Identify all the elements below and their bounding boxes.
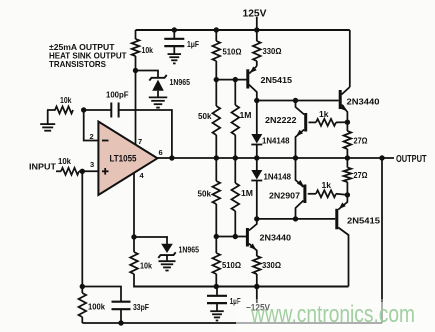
node pin2 junction: [81, 107, 86, 112]
resistor 330 (bottom): [253, 255, 261, 287]
node 1M/output junction: [233, 155, 238, 160]
wire feedback node drop: [81, 171, 83, 286]
capacitor 1uF (top): [164, 27, 184, 54]
pin 4 label: [140, 171, 145, 180]
pin 7 label: [138, 137, 142, 146]
label 1uF (top): [187, 39, 199, 49]
wire 100pF left: [84, 109, 112, 111]
label -125V: [246, 303, 270, 313]
label 510 (bottom): [222, 260, 241, 270]
pin 3 label: [90, 160, 94, 169]
capacitor 100pF: [111, 103, 118, 118]
svg-text:www.cntronics.com: www.cntronics.com: [250, 301, 415, 328]
label 1N4148 (bottom): [264, 172, 292, 182]
wire feedback bottom (faded): [236, 322, 382, 324]
resistor 330 (top): [253, 30, 261, 66]
wire zener1 branch: [136, 70, 159, 72]
diode zener 1N965 (bottom): [158, 244, 175, 261]
ground (top 1uF): [168, 54, 182, 63]
node 510 top rail: [214, 27, 219, 32]
transistor Q5 2N2907 (bottom limiter): [296, 158, 305, 219]
label 2N5415 (bottom): [347, 216, 380, 226]
label 100pF: [106, 89, 129, 99]
ground (top zener): [149, 97, 168, 107]
ground (10k feedback): [40, 110, 55, 131]
resistor 510 (top): [213, 30, 221, 80]
label OUTPUT: [396, 154, 427, 165]
node bottom base junction B: [214, 234, 219, 239]
svg-text:50k: 50k: [198, 111, 212, 121]
resistor 10k (feedback to ground): [55, 107, 73, 114]
node Q3 collector junction: [293, 98, 298, 103]
diode 1N4148 (top): [251, 134, 262, 158]
svg-text:50k: 50k: [198, 189, 212, 199]
node 510 bottom rail: [214, 284, 219, 289]
svg-text:33pF: 33pF: [133, 302, 149, 312]
svg-text:10k: 10k: [140, 261, 152, 271]
ground (bottom zener): [159, 261, 176, 270]
wire pin2 drop: [84, 110, 99, 141]
resistor 1k (top): [309, 119, 348, 126]
label 50k (top): [198, 111, 212, 121]
wire 33pF top: [82, 287, 121, 302]
label 2N2222: [265, 115, 297, 125]
wire -125V bottom rail: [134, 286, 349, 288]
svg-text:330Ω: 330Ω: [263, 46, 282, 56]
node D2 bottom junction: [254, 216, 259, 221]
resistor 27 (bottom): [344, 158, 352, 195]
node 1M top junction: [233, 77, 238, 82]
watermark fog: [236, 299, 435, 332]
svg-text:LT1055: LT1055: [110, 154, 138, 165]
wire 33pF bottom: [120, 309, 122, 323]
label 125V: [243, 9, 267, 20]
svg-text:INPUT: INPUT: [29, 162, 57, 172]
wire top bias line: [257, 100, 339, 102]
op-amp plus sign: [102, 168, 109, 175]
wire bottom base line: [216, 236, 246, 238]
label 510 (top): [223, 47, 242, 57]
wire +125V top rail: [136, 29, 350, 31]
svg-text:1N965: 1N965: [170, 77, 191, 87]
label 10k (feedback): [60, 95, 72, 105]
wire D1 top lead: [256, 101, 258, 135]
node pin3 junction: [80, 169, 85, 174]
transistor Q6 2N5415 (bottom output): [337, 195, 349, 287]
wire pin7 column: [135, 30, 137, 145]
label 1k (bottom): [322, 180, 332, 190]
svg-text:1N4148: 1N4148: [262, 136, 290, 146]
diode zener 1N965 (top): [149, 71, 166, 98]
label 2N3440 (bottom): [260, 233, 292, 243]
wire pin4 10k to rail: [133, 274, 135, 288]
node +125V supply stub: [254, 17, 259, 33]
wire D2 top lead: [256, 158, 258, 170]
transistor Q2 2N3440 (top output): [340, 87, 350, 122]
svg-text:27Ω: 27Ω: [354, 136, 368, 146]
resistor 27 (top): [344, 122, 352, 158]
wire input stub: [56, 170, 61, 172]
svg-text:2N5415: 2N5415: [261, 75, 293, 85]
wire feedback riser: [381, 158, 383, 302]
wire feedback bottom (dark): [82, 322, 236, 324]
wire pin4 column: [133, 173, 135, 253]
svg-text:510Ω: 510Ω: [222, 260, 241, 270]
ground (bottom 1uF): [210, 311, 224, 320]
resistor 510 (bottom): [213, 237, 221, 287]
resistor 50k (top): [213, 80, 221, 158]
transistor Q3 2N2222 (top limiter): [296, 101, 306, 159]
wire zener2 branch: [134, 236, 168, 244]
label heat-sink note: [49, 42, 127, 69]
label 1N965 (top): [170, 77, 191, 87]
svg-text:1N4148: 1N4148: [264, 172, 292, 182]
label 1uF (bottom): [230, 296, 241, 306]
transistor Q1 2N5415 (top driver): [248, 66, 257, 101]
wire input to pin3: [79, 170, 98, 172]
svg-text:2N3440: 2N3440: [260, 233, 292, 243]
label 1M (top): [240, 110, 252, 120]
resistor 100k: [79, 287, 87, 324]
svg-text:TRANSISTORS: TRANSISTORS: [49, 59, 106, 69]
svg-text:6: 6: [159, 148, 163, 157]
node Q3 emitter junction: [293, 155, 298, 160]
label INPUT: [29, 162, 57, 172]
svg-text:510Ω: 510Ω: [223, 47, 242, 57]
svg-text:100pF: 100pF: [106, 89, 129, 99]
label 2N2907: [269, 191, 300, 201]
node 33pF/feedback junction: [118, 320, 123, 325]
label 50k (bottom): [198, 189, 212, 199]
diode 1N4148 (bottom): [251, 170, 262, 219]
label 27 (top): [354, 136, 368, 146]
svg-text:10k: 10k: [58, 156, 71, 166]
op-amp minus sign: [102, 140, 109, 142]
wire rail to Q2 collector: [349, 30, 351, 87]
svg-text:1k: 1k: [322, 180, 332, 190]
node 27R bottom junction: [345, 192, 350, 197]
label 330 (top): [263, 46, 282, 56]
capacitor 33pF: [112, 302, 131, 310]
node 50k/output junction: [214, 155, 219, 160]
node Q1 collector junction: [254, 98, 259, 103]
label 1k (top): [319, 109, 329, 119]
node diode mid junction: [254, 155, 259, 160]
svg-text:2N5415: 2N5415: [347, 216, 380, 226]
node 100pF/output junction: [169, 155, 174, 160]
svg-text:3: 3: [90, 160, 94, 169]
svg-text:OUTPUT: OUTPUT: [396, 154, 427, 165]
label 1M (bottom): [241, 188, 253, 198]
node 100k/33pF junction: [80, 284, 85, 289]
label 2N3440 (top): [347, 97, 380, 107]
wire output line: [157, 157, 382, 159]
svg-text:2N3440: 2N3440: [347, 97, 380, 107]
node 1M bottom junction: [233, 234, 238, 239]
label 2N5415 (top): [261, 75, 293, 85]
node Q2 emitter junction: [345, 120, 350, 125]
label 330 (bottom): [262, 260, 281, 270]
resistor 10k (input): [61, 168, 79, 175]
svg-text:10k: 10k: [60, 95, 72, 105]
svg-text:2: 2: [90, 132, 94, 141]
svg-text:2N2907: 2N2907: [269, 191, 300, 201]
transistor Q4 2N3440 (bottom driver): [247, 219, 256, 255]
pin 2 label: [90, 132, 94, 141]
svg-text:1k: 1k: [319, 109, 329, 119]
node pin7/zener junction: [133, 68, 138, 73]
node pin4/zener junction: [131, 234, 136, 239]
capacitor 1uF (bottom): [207, 287, 227, 312]
node -125V supply stub: [254, 284, 259, 303]
svg-text:10k: 10k: [142, 45, 154, 55]
watermark text: [250, 301, 415, 328]
node 27R mid junction: [345, 155, 350, 160]
resistor 10k (V- dropper): [130, 252, 138, 274]
resistor 50k (bottom): [213, 158, 221, 237]
label 100k: [88, 302, 105, 312]
resistor 1k (bottom): [308, 190, 348, 197]
op-amp U1 LT1055 body: [98, 122, 157, 196]
label 10k (input): [58, 156, 71, 166]
node top base junction B: [214, 77, 219, 82]
svg-text:7: 7: [138, 137, 142, 146]
resistor 1M (bottom): [232, 158, 240, 237]
resistor 10k (V+ dropper): [132, 39, 140, 56]
label LT1055: [110, 154, 138, 165]
svg-text:27Ω: 27Ω: [354, 170, 368, 180]
wire output stub: [382, 157, 394, 159]
wire ground-10k left stub: [47, 109, 56, 111]
wire bottom bias line: [257, 218, 336, 220]
label 33pF: [133, 302, 149, 312]
wire top base line: [216, 79, 247, 81]
svg-text:125V: 125V: [243, 9, 267, 20]
node output junction: [379, 155, 384, 160]
label 27 (bottom): [354, 170, 368, 180]
svg-text:1M: 1M: [240, 110, 252, 120]
svg-text:100k: 100k: [88, 302, 105, 312]
node 330 bottom rail: [254, 284, 259, 289]
node Q5 collector junction: [293, 216, 298, 221]
label 1N965 (bottom): [179, 245, 200, 255]
svg-text:1M: 1M: [241, 188, 253, 198]
svg-text:330Ω: 330Ω: [262, 260, 281, 270]
wire 100pF right to output: [119, 110, 172, 158]
svg-text:2N2222: 2N2222: [265, 115, 297, 125]
wire feedback riser (faded): [381, 301, 383, 323]
resistor 1M (top): [232, 80, 240, 158]
svg-text:1μF: 1μF: [187, 39, 199, 49]
label 10k (V+ dropper): [142, 45, 154, 55]
pin 6 label: [159, 148, 163, 157]
label 10k (V- dropper): [140, 261, 152, 271]
svg-text:1N965: 1N965: [179, 245, 200, 255]
label 1N4148 (top): [262, 136, 290, 146]
